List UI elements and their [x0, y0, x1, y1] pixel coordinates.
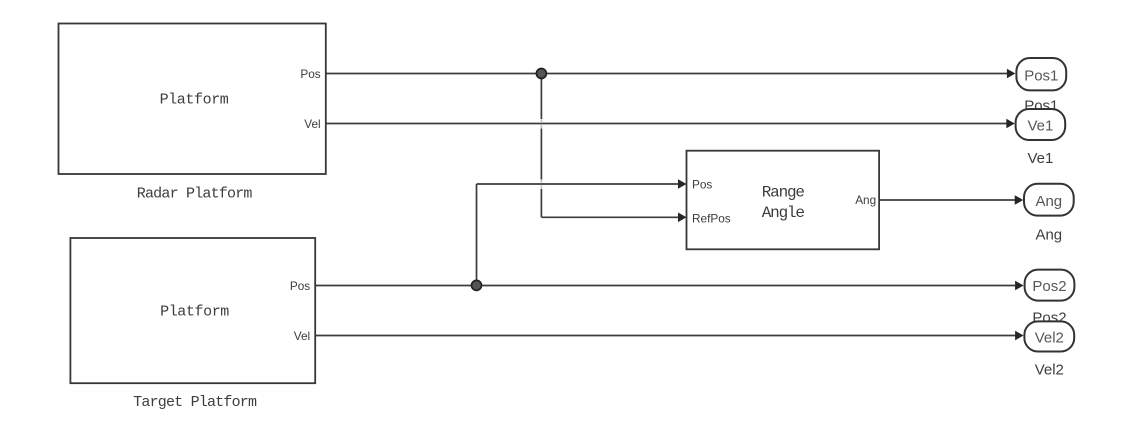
svg-text:Target Platform: Target Platform	[133, 394, 257, 411]
svg-text:Pos: Pos	[692, 177, 712, 191]
wire Target Pos to Pos2	[315, 285, 1016, 287]
wire Radar Pos to Pos1	[326, 73, 1008, 75]
svg-text:Pos2: Pos2	[1032, 278, 1066, 295]
svg-text:Platform: Platform	[160, 92, 229, 109]
junction A dot on Radar Pos wire	[536, 69, 546, 79]
svg-text:Radar Platform: Radar Platform	[137, 185, 253, 202]
wire vertical from junction B up to Pos corner	[476, 184, 478, 285]
wire Target Vel to Vel2	[315, 335, 1016, 337]
arrowhead into Pos1 port	[1007, 69, 1016, 79]
svg-text:Platform: Platform	[160, 303, 229, 320]
arrowhead into Ang port	[1015, 195, 1024, 205]
svg-text:Pos: Pos	[290, 279, 310, 293]
arrowhead into Pos2 port	[1015, 281, 1024, 291]
block Radar Platform	[59, 24, 326, 175]
svg-text:Vel: Vel	[304, 117, 320, 131]
svg-text:Range: Range	[762, 184, 805, 202]
svg-text:Pos: Pos	[300, 67, 320, 81]
arrowhead into Pos input	[678, 179, 687, 189]
wire crossing nubs (anti-alias remnants)	[540, 119, 542, 188]
svg-text:Ang: Ang	[855, 193, 876, 207]
svg-text:Angle: Angle	[762, 204, 805, 222]
svg-text:Ve1: Ve1	[1027, 150, 1053, 167]
svg-text:Vel2: Vel2	[1035, 361, 1064, 378]
junction B dot on Target Pos wire	[472, 280, 482, 290]
svg-text:RefPos: RefPos	[692, 212, 731, 226]
wire Range Angle Ang output to Ang port	[879, 199, 1015, 201]
port oval Pos1	[1016, 58, 1066, 90]
svg-text:Vel2: Vel2	[1035, 330, 1064, 347]
arrowhead into RefPos input	[678, 213, 687, 223]
port oval Vel2	[1024, 321, 1074, 351]
port oval Ve1	[1016, 109, 1066, 140]
svg-text:Ang: Ang	[1035, 193, 1062, 210]
wire vertical from junction A down to RefPos corner	[540, 74, 542, 218]
svg-text:Ve1: Ve1	[1027, 118, 1053, 135]
svg-text:Ang: Ang	[1035, 226, 1062, 243]
port oval Ang	[1024, 184, 1074, 216]
block Range Angle	[687, 151, 880, 250]
block Target Platform	[70, 238, 315, 383]
wire corner A to RefPos input of Range Angle	[541, 216, 679, 218]
wire corner B to Pos input of Range Angle	[477, 183, 680, 185]
svg-text:Pos1: Pos1	[1024, 67, 1058, 84]
arrowhead into Ve1 port	[1006, 119, 1015, 129]
arrowhead into Vel2 port	[1015, 331, 1024, 341]
port oval Pos2	[1025, 270, 1075, 301]
wire Radar Vel to Ve1	[326, 123, 1008, 125]
svg-text:Vel: Vel	[294, 329, 310, 343]
